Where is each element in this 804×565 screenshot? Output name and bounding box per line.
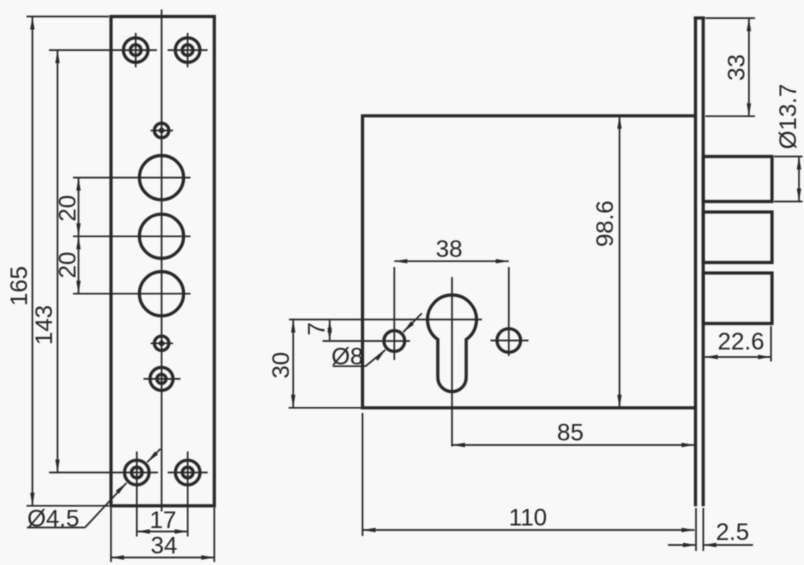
extension line bottom for 165 bbox=[27, 505, 110, 507]
leader Ø4.5 diagonal bbox=[85, 483, 127, 528]
extension lines for 34 bbox=[110, 508, 112, 563]
screw hole top-right bbox=[168, 49, 208, 51]
svg-text:Ø4.5: Ø4.5 bbox=[27, 505, 79, 532]
faceplate vertical centerline bbox=[161, 10, 163, 512]
dimension 7 arrows bbox=[329, 320, 331, 342]
hole Ø8 crosshair horizontal / 7 reference bbox=[323, 340, 411, 342]
extension lines for Ø13.7 bbox=[774, 156, 803, 158]
right hole bbox=[497, 329, 521, 353]
dimension 98.6 line bbox=[619, 116, 621, 408]
keyhole vertical centerline bbox=[451, 277, 453, 447]
svg-text:20: 20 bbox=[54, 252, 81, 279]
svg-text:20: 20 bbox=[54, 195, 81, 222]
faceplate side view top cap bbox=[694, 16, 705, 19]
svg-text:143: 143 bbox=[31, 305, 58, 345]
bolt 2 bbox=[703, 212, 772, 263]
dimension 33 line bbox=[748, 18, 750, 116]
dimension 22.6 line bbox=[705, 356, 771, 358]
center line circle 2 bbox=[73, 235, 191, 237]
extension lines for 2.5 bbox=[695, 508, 697, 551]
svg-text:2.5: 2.5 bbox=[716, 519, 749, 546]
bolt 1 bbox=[703, 157, 772, 202]
medium hole bbox=[144, 378, 181, 380]
large circle 2 bbox=[139, 214, 183, 258]
svg-text:165: 165 bbox=[6, 266, 33, 306]
hole Ø8 bbox=[384, 331, 405, 352]
extension line bottom for 30 bbox=[289, 407, 362, 409]
keyhole euro profile bbox=[427, 295, 476, 392]
small hole lower bbox=[151, 342, 173, 344]
right hole crosshair horizontal bbox=[491, 340, 529, 342]
dimension 165 line bbox=[31, 17, 33, 506]
extension line bottom for 143 + screw crosshair bbox=[49, 472, 158, 474]
dimension Ø13.7 line bbox=[798, 157, 800, 202]
dimension 2.5 arrows bbox=[668, 544, 696, 546]
center line circle 3 bbox=[73, 293, 191, 295]
dimension 30 line bbox=[292, 320, 294, 408]
right hole vertical crosshair / 38 extension bbox=[508, 267, 510, 356]
faceplate side view right line bbox=[702, 18, 705, 506]
faceplate front view outline bbox=[111, 17, 214, 506]
svg-text:7: 7 bbox=[303, 322, 330, 335]
label Ø8 far arrow bbox=[403, 313, 422, 332]
svg-text:Ø8: Ø8 bbox=[331, 343, 363, 370]
screw hole bottom-right with extension for 17 bbox=[168, 472, 208, 474]
svg-text:98.6: 98.6 bbox=[592, 200, 619, 247]
dimension 85 line bbox=[452, 444, 695, 446]
dimension 34 line bbox=[111, 557, 214, 559]
large circle 1 bbox=[139, 156, 183, 200]
lock body outline bbox=[363, 116, 696, 408]
small hole upper bbox=[151, 130, 173, 132]
extension line top for 143 + screw crosshair bbox=[49, 49, 157, 51]
dimension 38 line bbox=[394, 260, 509, 262]
extension line top for 33 bbox=[706, 17, 756, 19]
bolt 3 bbox=[703, 273, 772, 324]
extension line left for 110 bbox=[362, 413, 364, 536]
svg-text:17: 17 bbox=[150, 507, 177, 534]
dimension 20 lower line bbox=[78, 236, 80, 293]
screw hole bottom-left with extension for 17 bbox=[136, 452, 138, 537]
leader Ø4.5 far arrow bbox=[147, 449, 160, 462]
hole Ø8 vertical crosshair / 38 extension bbox=[393, 267, 395, 360]
svg-text:22.6: 22.6 bbox=[718, 328, 765, 355]
svg-text:33: 33 bbox=[723, 54, 750, 81]
screw hole top-left bbox=[135, 33, 137, 67]
svg-text:85: 85 bbox=[557, 419, 584, 446]
faceplate side view left line bbox=[694, 18, 697, 506]
extension line top for 165 bbox=[27, 16, 110, 18]
center line circle 1 bbox=[73, 177, 191, 179]
svg-text:38: 38 bbox=[436, 236, 463, 263]
extension line for 22.6 bbox=[770, 326, 772, 362]
svg-text:34: 34 bbox=[151, 532, 178, 559]
extension line bottom for 33 bbox=[705, 115, 755, 117]
dimension 17 line bbox=[137, 531, 188, 533]
svg-text:110: 110 bbox=[509, 504, 547, 531]
svg-text:30: 30 bbox=[268, 352, 295, 379]
dimension 143 line bbox=[57, 50, 59, 472]
label Ø8 leader diagonal bbox=[366, 350, 386, 366]
dimension 20 upper line bbox=[78, 178, 80, 237]
large circle 3 bbox=[139, 272, 183, 316]
leader Ø4.5 underline bbox=[27, 527, 85, 529]
dimension 110 line bbox=[363, 529, 695, 531]
svg-text:Ø13.7: Ø13.7 bbox=[775, 84, 802, 149]
label Ø8 underline bbox=[333, 365, 366, 367]
keyhole horizontal centerline / 30-7 reference bbox=[289, 319, 482, 321]
